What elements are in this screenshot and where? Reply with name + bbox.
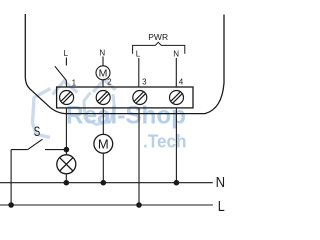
svg-text:2: 2	[107, 78, 112, 87]
switch S blade	[28, 139, 43, 149]
junction terminal4/N	[174, 180, 180, 186]
wire lamp to N line	[65, 174, 67, 183]
svg-text:4: 4	[179, 77, 184, 86]
terminal screw 2	[96, 91, 110, 105]
wire N to terminal 4	[175, 58, 177, 87]
terminal block	[57, 87, 193, 108]
switch S left wire	[11, 149, 28, 151]
junction S wire / L line	[8, 202, 14, 208]
watermark logo hexagon body A	[33, 89, 51, 138]
svg-text:3: 3	[142, 77, 147, 86]
junction lamp/N	[64, 180, 70, 186]
wire terminal 1 down to lamp	[65, 108, 67, 155]
terminal screw 1	[60, 91, 74, 105]
PWR bracket	[133, 42, 185, 54]
N bus line	[0, 182, 213, 184]
motor M (load, lower)	[94, 134, 113, 153]
watermark logo roof B	[93, 80, 115, 93]
svg-text:Real-Shop: Real-Shop	[66, 102, 186, 130]
switch S right wire	[45, 149, 66, 151]
svg-text:L: L	[64, 49, 69, 58]
terminal screw 3	[133, 91, 147, 105]
svg-text:N: N	[173, 49, 179, 58]
watermark logo hexagon body B	[84, 93, 115, 125]
wire motor to N line	[102, 153, 104, 183]
junction node switch/lamp	[64, 147, 70, 153]
wire blade pivot to terminal 1	[65, 81, 67, 88]
enclosure outline	[25, 14, 224, 114]
svg-text:M: M	[99, 68, 108, 80]
terminal screw 4	[170, 91, 184, 105]
wire motor to terminal 2	[102, 80, 104, 87]
motor M (upper, inside device)	[96, 66, 110, 80]
svg-text:L: L	[218, 198, 225, 215]
junction terminal3/L	[136, 202, 142, 208]
wire from N to motor U1	[102, 57, 104, 66]
svg-text:M: M	[98, 137, 109, 152]
svg-text:1: 1	[72, 79, 77, 88]
svg-text:S: S	[34, 123, 41, 139]
junction motor/N	[101, 180, 107, 186]
wire L to terminal 3	[138, 58, 140, 87]
svg-text:N: N	[216, 174, 226, 191]
wire terminal 4 down to N line	[175, 108, 177, 183]
wire terminal 2 down to motor	[102, 108, 104, 135]
wire terminal 3 down to L line	[138, 108, 140, 205]
lamp E1	[57, 155, 76, 174]
svg-text:.Tech: .Tech	[143, 131, 187, 152]
wire from L to switch contact	[65, 58, 67, 66]
watermark logo roof A	[53, 81, 78, 94]
relay switch blade above terminal 1	[55, 66, 67, 80]
wire switch S down to L line	[10, 150, 12, 205]
svg-text:N: N	[99, 49, 105, 58]
svg-text:L: L	[136, 49, 141, 58]
svg-text:PWR: PWR	[148, 32, 168, 42]
L bus line	[0, 204, 213, 206]
